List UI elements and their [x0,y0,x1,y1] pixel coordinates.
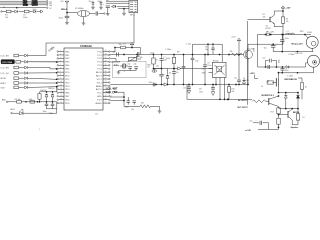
net label +5(x) [150,52,155,54]
svg-text:31: 31 [105,54,107,56]
wire cap rail [47,108,57,110]
svg-text:10u: 10u [264,48,267,50]
net label block TXD/RXD/GND [23,0,29,7]
capacitor C19 [191,58,199,84]
net label MIC+12V [292,44,304,46]
capacitor C17b [172,69,179,85]
label jack2 [295,53,304,55]
resistor R8 [166,55,176,70]
net label MIC+12V [266,31,275,33]
svg-text:9: 9 [60,78,61,80]
transistor Q1 BC557 [266,11,275,30]
net label +12V [250,73,256,75]
svg-text:25: 25 [105,74,107,76]
ground [82,23,86,25]
diode D7 [284,93,287,109]
svg-text:4k7: 4k7 [199,88,202,90]
svg-text:22: 22 [105,85,107,87]
svg-text:AGND: AGND [95,102,102,105]
svg-text:10: 10 [60,81,62,83]
svg-text:22p: 22p [128,63,131,65]
inductor L1 [286,31,295,35]
diode D10 [242,77,248,84]
ground [122,13,126,15]
bridge B1 box [213,61,227,78]
capacitor C2 [59,16,70,19]
left row 4 [1,72,28,75]
svg-text:+12V: +12V [250,73,256,75]
svg-text:+5(x): +5(x) [150,52,155,54]
label R mid [177,52,179,54]
transistor Q2 BC547 [244,44,255,85]
resistor R3b [29,99,35,103]
resistor R5 [119,44,126,49]
svg-text:AT-MEGA8: AT-MEGA8 [80,45,92,48]
capacitor C6 electrolytic [103,4,110,14]
svg-text:5: 5 [60,64,61,66]
svg-text:ADC6: ADC6 [96,71,103,74]
connector pins J1 line ends [46,0,52,9]
svg-text:100n: 100n [285,38,289,40]
svg-text:22p: 22p [89,1,92,3]
svg-text:100n: 100n [149,82,153,84]
svg-text:11: 11 [60,85,62,87]
power flag +5V [60,1,69,4]
capacitor C10 [117,53,119,57]
svg-text:LCD_4BIT: LCD_4BIT [106,87,118,90]
wire row5 [28,78,57,80]
IC U1 left pins [57,50,70,105]
label RFC [300,31,305,33]
ground arrow [211,92,215,96]
wire rail6 [273,48,313,53]
label vertical [254,48,256,52]
net label LCD diagonal [47,45,55,52]
svg-text:12: 12 [60,88,62,90]
svg-text:4: 4 [60,60,61,62]
capacitor C25 [280,35,289,52]
svg-text:100n: 100n [285,70,289,72]
capacitor C11 electrolytic [113,50,139,57]
ground [65,23,69,25]
svg-text:MIC INPUT: MIC INPUT [238,107,249,109]
resistor R1 [5,10,11,19]
svg-text:100n: 100n [43,111,47,113]
wire row1 [28,55,46,57]
svg-text:2: 2 [60,54,61,56]
wire xtal1 [110,59,116,62]
net label speaker [291,127,299,129]
crystal group box [113,61,147,77]
svg-text:MISO: MISO [1,83,7,85]
net label XTAL1 [106,87,118,90]
net label 4MHz [113,64,120,67]
svg-text:10u: 10u [131,109,134,111]
resistor R18 [296,109,304,125]
svg-text:100n: 100n [199,91,203,93]
wire +5 node [66,4,77,17]
capacitor C16 [160,55,168,69]
wire jack2 line [258,35,309,68]
svg-text:22p: 22p [134,63,137,65]
resistor R10 zigzag [230,51,243,56]
svg-text:10: 10 [302,117,304,119]
wire led to node [23,112,56,114]
wire mic [115,92,125,106]
resistor R15 [298,78,307,99]
power flag +12V [231,37,241,44]
label C10u [186,43,191,45]
svg-text:16: 16 [60,102,62,104]
svg-text:AREF: AREF [96,85,102,88]
svg-text:3: 3 [60,57,61,59]
net label MIC INPUT [238,107,249,109]
wire out line [258,34,312,36]
wire row2b [28,61,57,63]
svg-text:LED1: LED1 [10,109,16,111]
capacitor C22 [199,85,215,94]
svg-text:10k: 10k [230,51,233,53]
left row conn block [1,60,27,64]
svg-text:GND: GND [97,96,102,98]
svg-text:C 100n: C 100n [165,49,171,51]
capacitor C17 [182,55,186,85]
RCA jack J5 [306,31,318,48]
capacitor C14 [125,97,130,109]
svg-text:MOSI: MOSI [1,78,7,80]
capacitor C27 electrolytic [250,120,269,130]
svg-text:1k: 1k [156,59,158,61]
wire crystal right [90,13,96,15]
svg-text:100n: 100n [207,65,211,67]
resistor R19 [277,118,280,129]
svg-text:32: 32 [105,50,107,52]
svg-text:100n: 100n [23,17,27,19]
net label WR+5 [61,9,68,11]
svg-text:VCC1: VCC1 [32,4,39,7]
svg-text:ADC7: ADC7 [96,74,103,77]
wire crystal to gnd [83,17,85,23]
svg-text:4k7: 4k7 [141,103,144,105]
label under rail6 [288,54,294,56]
wire bottom row [21,101,57,103]
svg-text:10: 10 [305,87,307,89]
svg-text:SCK: SCK [1,87,6,89]
svg-text:BD135/BD136: BD135/BD136 [285,79,297,81]
svg-text:(C)x+12V: (C)x+12V [295,53,304,55]
diode D3 [113,5,116,8]
svg-text:+12V: +12V [231,37,236,39]
svg-text:MOSFET-N 1: MOSFET-N 1 [262,95,275,97]
ground [99,7,103,9]
wire feedback top [193,43,223,58]
ground [91,7,95,9]
svg-text:6: 6 [60,67,61,69]
svg-text:10u: 10u [156,65,159,67]
ISP header J2 [129,0,138,16]
label C100n [165,49,171,51]
resistor R6 zigzag [140,103,151,108]
transistor Q4 [278,109,293,120]
svg-text:B250C: B250C [213,61,219,63]
svg-text:10p: 10p [195,60,198,62]
net label MOSFET-N [262,95,275,97]
svg-text:10u: 10u [250,120,253,122]
wire +12 stem [238,43,240,54]
RCA jack J6 [308,55,320,67]
wire emitter [292,120,298,125]
transistor Q3 [266,95,280,106]
svg-text:ISP-6: ISP-6 [130,14,136,16]
net label +12V arrow [245,130,252,132]
power flag +5V [123,42,135,47]
svg-text:XTL2: XTL2 [97,82,103,84]
svg-text:C 100n: C 100n [288,54,294,56]
net label BD136 [293,112,300,114]
net label XTAL2 [106,91,118,94]
crystal X2 [120,64,128,68]
wire led net [56,102,58,113]
wire bus top [46,43,134,56]
wire cap join [124,71,136,72]
wire xbox drop [221,44,223,62]
svg-text:23: 23 [105,81,107,83]
svg-text:28: 28 [105,64,107,66]
svg-text:10k: 10k [5,17,8,19]
wire collector bottom [274,23,283,34]
svg-text:14: 14 [60,95,62,97]
svg-text:GND: GND [23,4,29,7]
svg-text:1k: 1k [261,86,263,88]
svg-text:LCD_D4: LCD_D4 [1,73,10,75]
connector pin input row [1,11,2,12]
svg-text:L1: L1 [287,31,289,33]
svg-text:C9: C9 [207,63,209,65]
svg-text:X1 4MHz: X1 4MHz [75,8,84,10]
net label AF INPUT [238,99,248,102]
left row 7 [1,86,28,89]
wire cap branch [248,35,283,46]
capacitor C15 [131,101,136,112]
wire mid link [279,108,299,110]
net label block RX/TX/VCC [31,0,38,7]
svg-text:10k: 10k [232,91,235,93]
svg-text:Speaker: Speaker [291,127,299,129]
svg-text:R9: R9 [177,52,179,54]
wire rail3 [110,82,248,87]
ground arrow [187,90,190,93]
wire row4 [28,72,57,74]
capacitor C23 [234,55,241,85]
IC U1 right pins [95,50,110,105]
svg-text:D9: D9 [169,72,171,74]
net label BD139 [285,79,297,81]
svg-text:RFC: RFC [300,31,305,33]
diode D2 [33,10,36,13]
svg-text:XTL1: XTL1 [97,79,103,81]
wire +12 feed [258,128,279,130]
svg-text:22p: 22p [113,51,116,53]
svg-text:VCC: VCC [97,93,102,95]
wire rail7 [279,67,314,74]
svg-text:100k: 100k [166,58,170,60]
capacitor C3 [96,11,98,15]
svg-text:10u: 10u [263,57,266,59]
svg-text:C10: C10 [183,87,186,89]
signal arrow [178,67,181,70]
left row 6 [1,82,28,85]
capacitor C26 [281,67,289,73]
svg-text:7: 7 [60,71,61,73]
svg-text:LCD_RS: LCD_RS [1,56,10,58]
capacitor C13 [134,63,138,70]
capacitor C20 [203,55,211,85]
capacitor C18 [205,43,215,54]
resistor R17 [271,106,281,117]
svg-text:27: 27 [105,67,107,69]
svg-text:MC(x)+12V: MC(x)+12V [292,44,304,46]
power stub [255,75,259,79]
connector pin [6,101,7,102]
wire row6 [28,82,57,84]
svg-text:26: 26 [105,71,107,73]
svg-text:RCA1: RCA1 [307,31,312,34]
capacitor C28 [268,65,270,69]
svg-text:24: 24 [105,78,107,80]
bypass loop C29 [263,57,281,67]
wire C3 right [98,13,105,14]
resistor R4 [38,92,41,102]
diode D9 [166,69,171,85]
svg-text:C 10u: C 10u [186,43,191,45]
svg-text:D10: D10 [246,80,249,82]
wire row3 [28,68,57,70]
capacitor C21 [183,85,191,91]
svg-text:10k: 10k [140,57,143,59]
svg-text:30: 30 [105,57,107,59]
connector pin MIC [148,64,162,72]
left row 5 [1,77,28,80]
svg-text:LCD-CONN: LCD-CONN [2,62,13,64]
wire left vertical [247,21,249,105]
capacitor C5 [98,1,103,7]
wire bridge bottoms [216,78,225,100]
crystal X1 [75,8,90,17]
resistor R7 [152,55,162,70]
diode D6 [48,88,54,102]
svg-text:R3 10k: R3 10k [15,99,21,101]
capacitor C8 [49,102,54,115]
svg-text:10k: 10k [286,21,289,23]
wire diode row [111,5,129,7]
LED D4 [12,109,23,115]
wire base Q1 [248,14,270,19]
resistor R2 [23,10,29,19]
svg-text:1N4148: 1N4148 [48,88,54,90]
svg-text:1N4148: 1N4148 [40,90,46,92]
svg-text:=+12V: =+12V [245,130,252,132]
wire main rail A [110,54,243,56]
svg-text:AVCC: AVCC [96,88,102,91]
svg-text:100n: 100n [125,107,129,109]
wire pin row links [110,97,124,101]
op-amp U1 ATMEGA8 body [64,45,103,115]
svg-text:100k: 100k [29,99,33,101]
svg-text:BC557: BC557 [266,28,272,30]
svg-text:1: 1 [60,50,61,52]
diode D1 [15,10,18,13]
wire C2 to gnd [66,18,68,23]
wire row2 [28,61,57,63]
ground [117,71,125,74]
svg-text:10u: 10u [176,72,179,74]
wire xtal2 [110,60,119,63]
wire serial bus lines [0,1,46,8]
wire to R6 [124,105,140,107]
wire upper mini rail [40,86,58,93]
svg-text:100n: 100n [59,18,63,20]
connector pin [11,112,12,113]
diode D11 [267,33,270,36]
svg-text:10n: 10n [234,78,237,80]
ground [158,111,162,113]
capacitor C4 [89,1,95,7]
svg-text:C 100n: C 100n [287,75,293,77]
svg-text:10k: 10k [263,17,266,19]
svg-text:R17: R17 [271,111,274,113]
potentiometer RV1 [128,56,143,62]
svg-text:13: 13 [60,91,62,93]
wire row7 [28,86,57,88]
wire reset pullup [110,47,140,55]
svg-text:10p: 10p [205,49,208,51]
svg-text:+12V: +12V [286,8,292,10]
svg-text:10k: 10k [119,44,122,46]
svg-text:J1: J1 [3,6,5,8]
wire ISP gnd row [118,8,129,13]
net label LCD-BL [2,99,7,102]
wire ISP to bus [133,13,135,43]
capacitor C7 [43,102,49,113]
power flag +12V [281,6,291,11]
svg-text:18: 18 [105,98,107,100]
svg-text:4MHz: 4MHz [113,64,120,67]
left row 3 [1,66,28,69]
svg-text:17: 17 [105,102,107,104]
wire input row [2,11,40,13]
capacitor C16b electrolytic [156,65,166,84]
net label LED [10,109,16,111]
svg-text:100n: 100n [279,59,281,63]
wire top link [278,92,299,94]
svg-text:LCD_EN: LCD_EN [1,68,10,70]
diode D12 [286,66,289,69]
svg-text:19: 19 [105,95,107,97]
wire collector top [274,10,284,17]
ground [106,14,110,16]
junction on serial line [3,6,36,11]
wire ISP top lines [106,0,129,3]
resistor R16 zigzag [253,100,266,103]
diode D5 [40,90,48,102]
diode D8 [296,93,299,109]
resistor R14 [261,80,273,88]
capacitor C12 [128,63,132,70]
resistor R3 [15,99,22,103]
label under rail7 [287,75,293,77]
resistor R12 [281,17,288,23]
bridge pins left [202,68,213,74]
